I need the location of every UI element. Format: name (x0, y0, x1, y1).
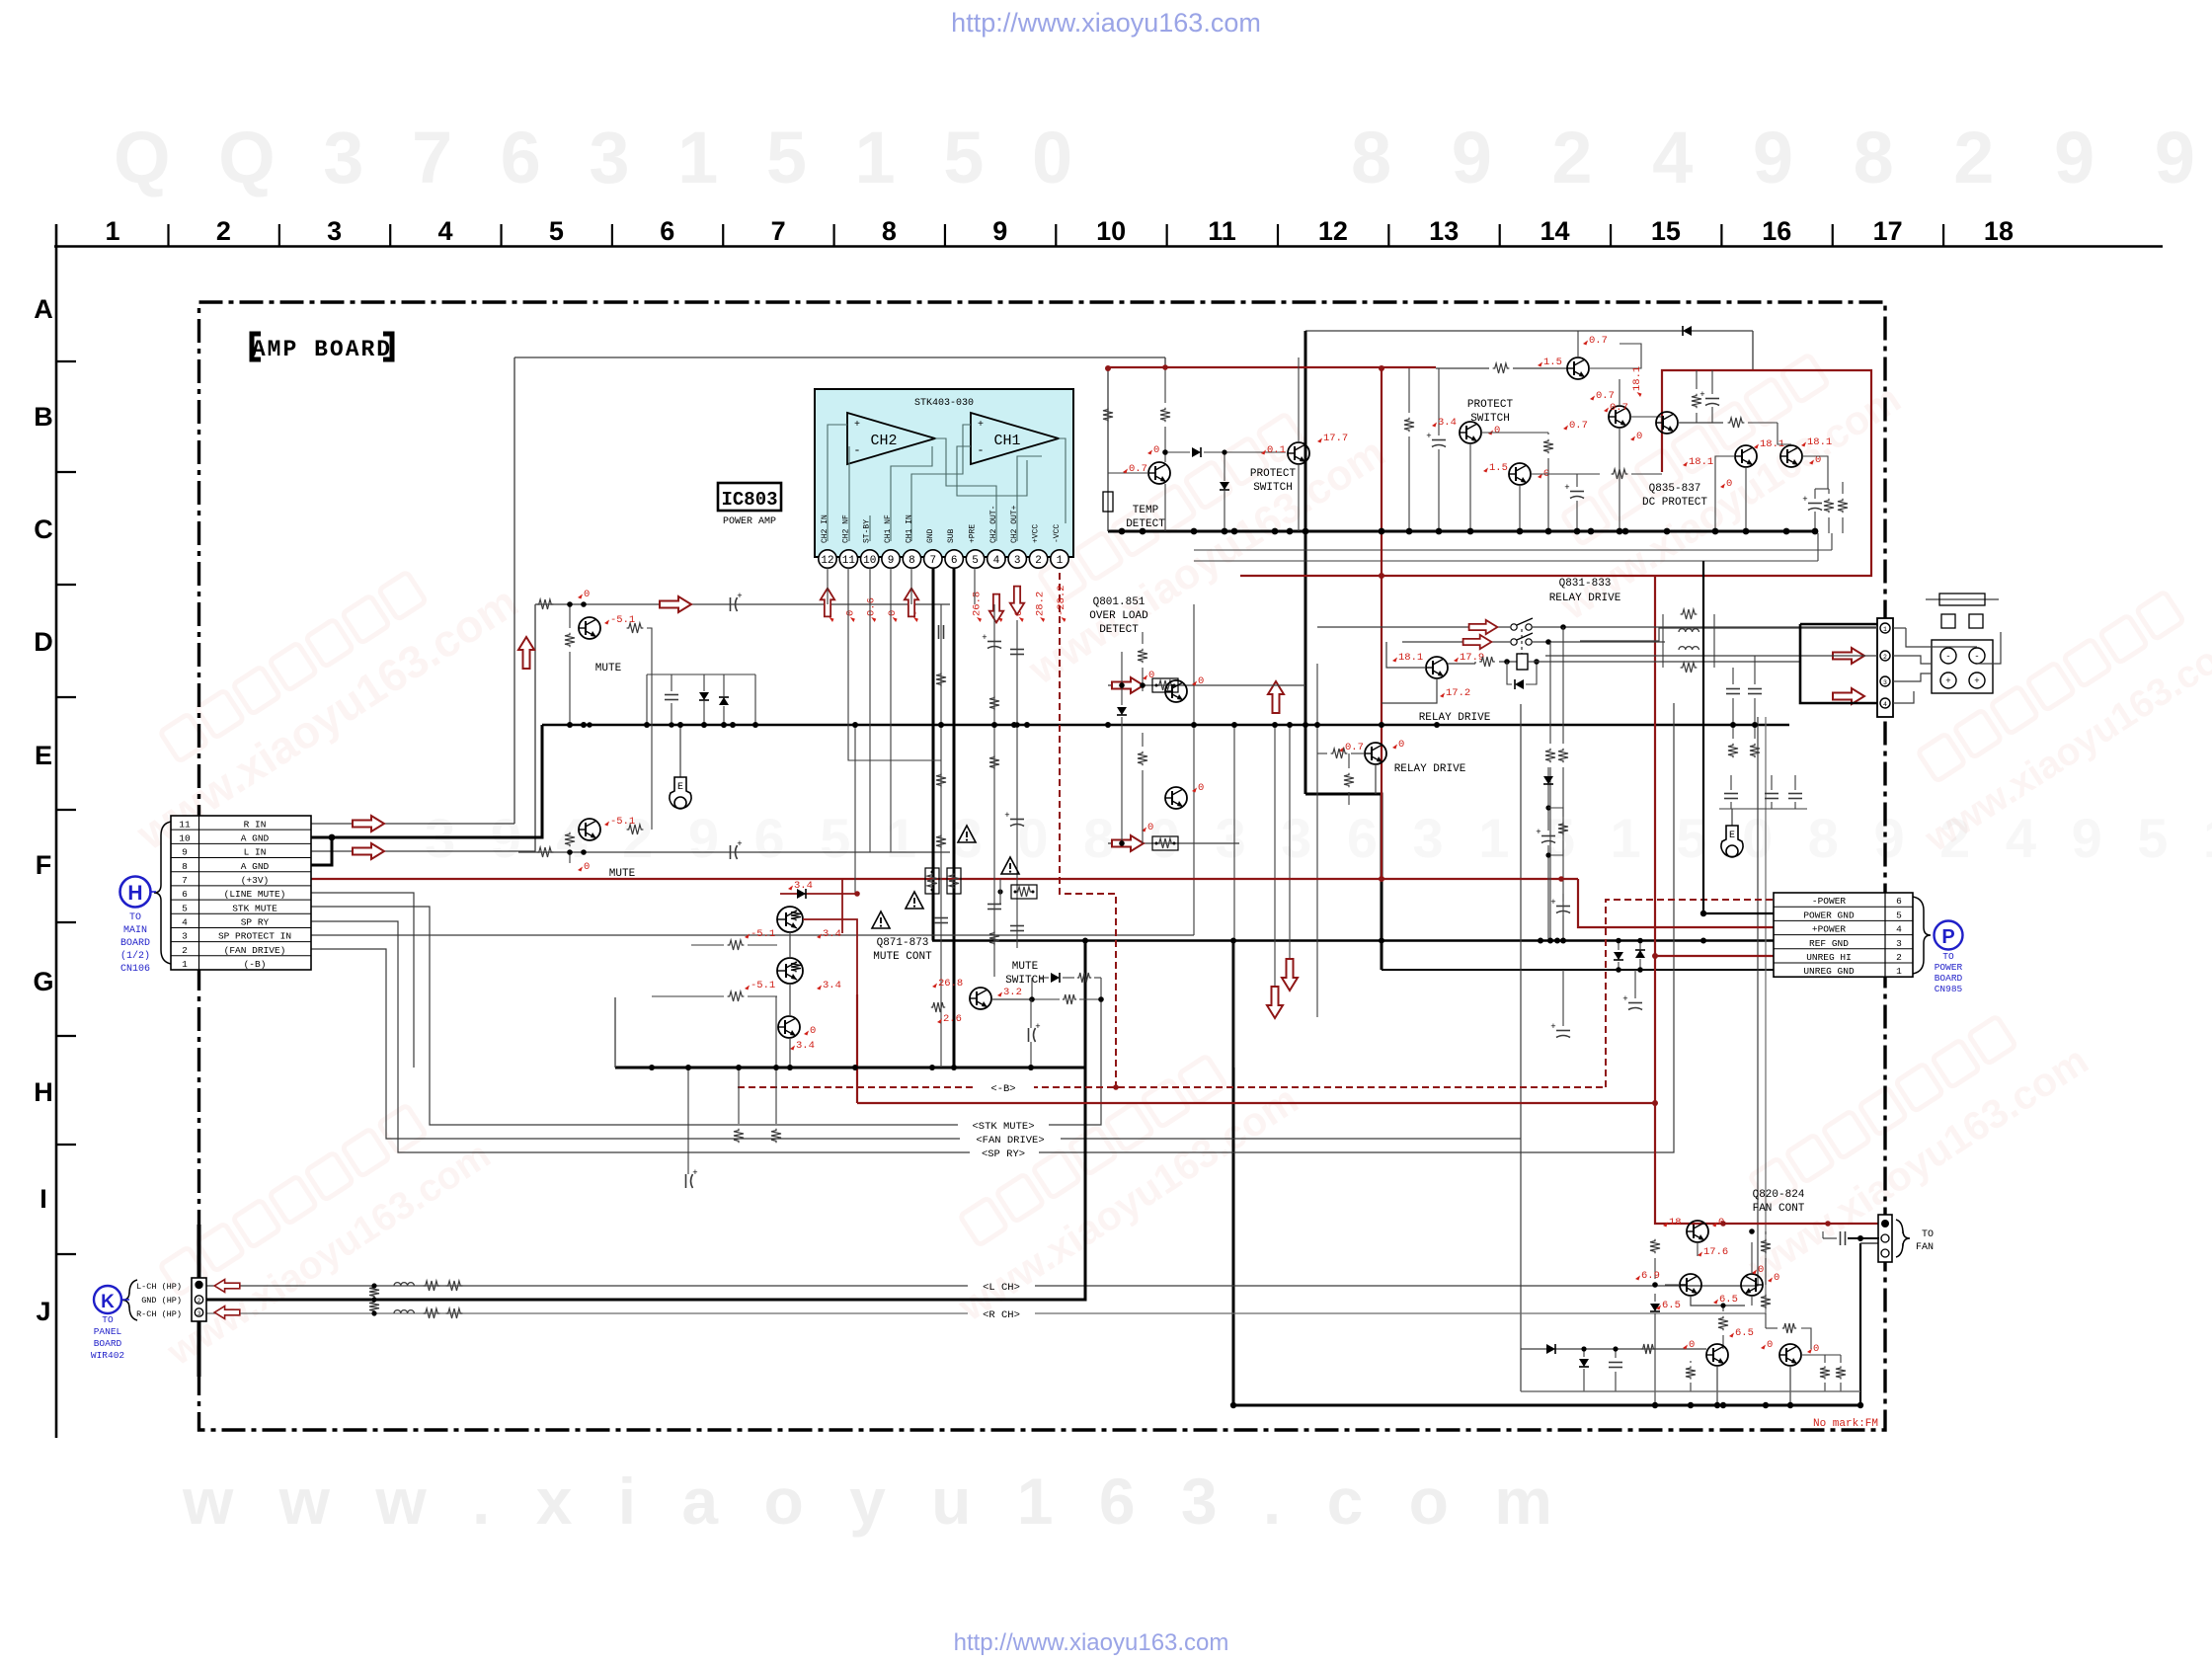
svg-text:-VCC: -VCC (1053, 524, 1062, 543)
svg-text:H: H (127, 882, 142, 905)
TO FAN connector (1878, 1215, 1892, 1262)
op-amp CH2 (847, 413, 935, 464)
svg-text:<L CH>: <L CH> (983, 1282, 1020, 1294)
svg-text:2: 2 (197, 1298, 201, 1305)
svg-text:6: 6 (951, 555, 958, 567)
transistor protect switch 2 (1460, 422, 1481, 443)
pin 8 CH1 IN (903, 550, 920, 568)
svg-text:2: 2 (1896, 952, 1902, 963)
svg-text:3.4: 3.4 (796, 1040, 815, 1052)
svg-text:-5.1: -5.1 (750, 928, 775, 940)
svg-text:+: + (1699, 390, 1704, 400)
svg-text:No mark:FM: No mark:FM (1813, 1418, 1878, 1430)
pin 7 GND (924, 550, 942, 568)
svg-text:w w w . x i a o y u 1 6 3 . c: w w w . x i a o y u 1 6 3 . c o m (182, 1465, 1566, 1538)
svg-text:STK MUTE: STK MUTE (232, 903, 277, 913)
junction dots lower bus (649, 1065, 655, 1070)
wire main horizontal bus row E (542, 724, 1789, 726)
svg-text:J: J (36, 1297, 50, 1326)
resistor relay drive 2 base (1331, 749, 1348, 758)
svg-text:14: 14 (1540, 216, 1570, 246)
svg-text:-POWER: -POWER (1812, 896, 1847, 907)
node K circle (94, 1286, 121, 1313)
wire LINE MUTE run (311, 893, 414, 1068)
resistor DC a (1824, 499, 1834, 513)
wire out row1 (1580, 628, 1877, 641)
resistor centre column (1404, 418, 1414, 432)
wire temp detect left leg (1107, 367, 1109, 531)
svg-text:K: K (101, 1292, 115, 1312)
relay coil (1517, 654, 1528, 670)
svg-text:6.5: 6.5 (1735, 1327, 1754, 1339)
svg-text:<STK MUTE>: <STK MUTE> (972, 1121, 1034, 1133)
diode mute cont (797, 889, 806, 899)
svg-text:3: 3 (1896, 938, 1902, 949)
arrow up pin 12 (821, 589, 834, 617)
transistor Q835 (1656, 412, 1678, 434)
transistor protect switch 1 (1288, 442, 1309, 464)
svg-text:E: E (35, 741, 52, 770)
svg-text:9: 9 (182, 847, 188, 858)
diode top rail (1683, 326, 1692, 336)
svg-text:1.5: 1.5 (1543, 356, 1562, 368)
resistor fan a (1650, 1239, 1660, 1253)
svg-text:Q801.851: Q801.851 (1093, 596, 1145, 608)
resistor mute switch base (931, 1002, 945, 1012)
svg-text:IC803: IC803 (721, 489, 777, 511)
svg-text:1.5: 1.5 (1489, 462, 1508, 474)
svg-text:MAIN: MAIN (123, 925, 147, 936)
svg-text:+: + (1802, 495, 1807, 505)
svg-text:+: + (1004, 811, 1009, 821)
svg-text:18: 18 (1984, 216, 2014, 246)
solid border segment above K (197, 1225, 201, 1280)
svg-text:5: 5 (1896, 910, 1902, 920)
svg-text:5: 5 (182, 903, 188, 913)
transistor top 1 (1567, 357, 1589, 379)
junction dots heavy bus 952 (1082, 938, 1088, 944)
svg-text:16: 16 (1762, 216, 1791, 246)
svg-text:0: 0 (1726, 478, 1732, 490)
svg-text:+VCC: +VCC (1032, 524, 1041, 543)
svg-text:CN985: CN985 (1935, 984, 1963, 994)
svg-text:-: - (1974, 652, 1979, 662)
wire L IN from CN106 pin 9 (311, 604, 535, 851)
transistor protect switch 3 (1509, 463, 1531, 485)
svg-text:11: 11 (179, 819, 191, 830)
component column x=1030 (1016, 620, 1018, 948)
op-amp CH1 (971, 413, 1059, 464)
wire mute cont verticals (789, 932, 791, 958)
wire drop to DC-protect top (1752, 331, 1754, 370)
AMP BOARD title (252, 334, 261, 359)
svg-text:6.5: 6.5 (1662, 1300, 1681, 1311)
svg-text:BOARD: BOARD (120, 938, 150, 949)
svg-text:CH1 IN: CH1 IN (905, 515, 913, 543)
wire relay second row (1402, 641, 1510, 643)
svg-text:L-CH (HP): L-CH (HP) (136, 1282, 182, 1292)
wire lower heavy bus G row (615, 1067, 1085, 1069)
resistor Q835 (1692, 394, 1701, 408)
wire relay top row (1317, 626, 1510, 628)
arrow overload 1 (1112, 677, 1144, 693)
bead L line (394, 1283, 414, 1286)
svg-text:28.2: 28.2 (1035, 592, 1047, 616)
svg-text:+: + (1550, 898, 1555, 908)
svg-text:0: 0 (1494, 425, 1500, 436)
pin 3 CH2 OUT+ (1008, 550, 1026, 568)
svg-text:C: C (34, 515, 53, 544)
svg-text:CN106: CN106 (120, 964, 150, 975)
ground lug E left (679, 725, 681, 777)
pin 4 CH2 OUT- (987, 550, 1005, 568)
svg-text:POWER: POWER (1935, 962, 1963, 973)
svg-text:GND: GND (926, 528, 935, 543)
diode protect (1192, 447, 1201, 457)
label SP RY (970, 1146, 1039, 1158)
resistor fan base (1641, 1344, 1655, 1354)
wire FAN DRIVE run (311, 949, 1521, 1139)
svg-text:0: 0 (1774, 1272, 1779, 1284)
warning triangles (958, 826, 976, 842)
svg-text:DETECT: DETECT (1126, 518, 1165, 530)
left ruler vertical line (55, 224, 58, 1438)
connector WIR402 box (192, 1278, 206, 1321)
resistor overload a (1138, 649, 1147, 663)
svg-text:CH2 NF: CH2 NF (841, 515, 850, 543)
vertical riser x=1250 (1233, 725, 1235, 1068)
svg-text:D: D (34, 627, 53, 657)
pin 10 ST-BY (861, 550, 879, 568)
arrow down centre 1 (1282, 959, 1298, 990)
svg-text:MUTE CONT: MUTE CONT (873, 951, 932, 963)
svg-text:13: 13 (1429, 216, 1459, 246)
svg-text:+POWER: +POWER (1812, 924, 1847, 935)
transistor fan Q823 (1706, 1344, 1728, 1366)
svg-text:STK403-030: STK403-030 (914, 398, 974, 409)
red lower rail (857, 1102, 1655, 1104)
svg-text:0.7: 0.7 (1596, 390, 1615, 402)
svg-text:9: 9 (888, 555, 895, 567)
svg-text:2: 2 (1035, 555, 1042, 567)
svg-text:+PRE: +PRE (969, 524, 978, 543)
svg-text:+: + (982, 633, 987, 643)
speaker terminal block (1932, 640, 1993, 693)
resistor mute upper (565, 633, 575, 647)
label FAN DRIVE (960, 1132, 1061, 1145)
wire mid feedback pair (1194, 549, 1832, 551)
arrow into L-CH (214, 1280, 240, 1293)
cap right column (1570, 491, 1584, 493)
svg-text:G: G (33, 967, 53, 996)
IC U803 STK403-030 block (815, 389, 1073, 557)
red DC protect loop (1240, 370, 1871, 576)
svg-text:3: 3 (197, 1310, 201, 1317)
svg-text:+: + (1945, 676, 1950, 686)
svg-text:TO: TO (129, 912, 141, 923)
red -B dashed rail (738, 1086, 1606, 1088)
svg-text:8 9 2 4 9 8 2 9 9: 8 9 2 4 9 8 2 9 9 (1351, 117, 2212, 198)
svg-text:CH1: CH1 (993, 433, 1020, 449)
svg-text:(FAN DRIVE): (FAN DRIVE) (224, 945, 286, 956)
svg-text:R-CH (HP): R-CH (HP) (136, 1309, 182, 1319)
svg-text:10: 10 (1096, 216, 1126, 246)
svg-text:(LINE MUTE): (LINE MUTE) (224, 889, 286, 900)
svg-text:0: 0 (1767, 1339, 1773, 1351)
svg-text:<FAN DRIVE>: <FAN DRIVE> (976, 1135, 1044, 1147)
wire R CH run (205, 1312, 968, 1314)
svg-text:18.1: 18.1 (1398, 652, 1423, 664)
fusible resistors vertical (925, 868, 939, 894)
svg-text:FAN CONT: FAN CONT (1753, 1203, 1805, 1215)
svg-text:WIR402: WIR402 (91, 1350, 125, 1361)
cap DC protect (1808, 503, 1822, 505)
red vertical relay feed (1381, 368, 1382, 879)
svg-text:0: 0 (1198, 675, 1204, 687)
wire TO FAN pin3 drop (1859, 1243, 1861, 1405)
svg-text:+: + (1536, 828, 1540, 837)
diode fan row (1546, 1344, 1555, 1354)
svg-text:18.1: 18.1 (1689, 456, 1713, 468)
svg-text:(-B): (-B) (244, 959, 267, 970)
svg-text:RELAY DRIVE: RELAY DRIVE (1549, 593, 1621, 604)
svg-text:3: 3 (182, 931, 188, 942)
pin 6 SUB (945, 550, 963, 568)
svg-text:I: I (39, 1184, 47, 1214)
svg-text:6: 6 (660, 216, 674, 246)
svg-text:0: 0 (887, 610, 899, 616)
red unreg hi feed (1654, 576, 1656, 956)
arrow mute up (518, 637, 534, 669)
solid border segment below K (197, 1319, 201, 1377)
resistor Q835 base (1728, 418, 1745, 428)
red rail top protect (1108, 366, 1436, 368)
svg-text:3.2: 3.2 (1003, 987, 1022, 998)
svg-text:-: - (977, 443, 984, 457)
svg-text:(1/2): (1/2) (120, 950, 150, 962)
svg-text:POWER GND: POWER GND (1803, 910, 1855, 920)
svg-text:2: 2 (182, 945, 188, 956)
pin 3 R-CH (195, 1308, 202, 1316)
component column x=953 (940, 604, 942, 1068)
diode + resistor loop (991, 998, 1032, 1000)
svg-text:26.8: 26.8 (938, 978, 963, 990)
svg-text:11: 11 (842, 555, 856, 567)
coil block (1662, 614, 1664, 668)
transistor top 2 (1609, 406, 1630, 428)
svg-text:+: + (978, 420, 984, 431)
svg-text:SP PROTECT IN: SP PROTECT IN (218, 931, 291, 942)
H brace (154, 822, 171, 964)
svg-text:Q820-824: Q820-824 (1753, 1189, 1805, 1201)
svg-text:<-B>: <-B> (990, 1083, 1015, 1095)
svg-text:CH2 OUT+: CH2 OUT+ (1010, 505, 1019, 543)
pin 12 CH2 IN (819, 550, 836, 568)
svg-text:SUB: SUB (947, 528, 956, 543)
transistor overload A (1165, 680, 1187, 702)
arrow into R-CH (214, 1307, 240, 1319)
svg-text:0: 0 (1689, 1339, 1695, 1351)
svg-text:http://www.xiaoyu163.com: http://www.xiaoyu163.com (954, 1629, 1229, 1656)
pin 1 -VCC (1051, 550, 1068, 568)
svg-text:7: 7 (182, 875, 188, 886)
svg-text:SP RY: SP RY (241, 917, 270, 928)
svg-text:11: 11 (1208, 216, 1236, 246)
arrow to output pin4 (1833, 688, 1864, 704)
svg-text:PANEL: PANEL (94, 1326, 122, 1337)
wire relay switch risers (1549, 642, 1551, 744)
svg-text:18.1: 18.1 (1807, 436, 1832, 448)
resistor mute lower right (627, 825, 644, 834)
resistor mute cont a (728, 940, 745, 950)
svg-text:POWER AMP: POWER AMP (723, 516, 776, 527)
svg-text:1: 1 (1057, 555, 1064, 567)
svg-text:FAN: FAN (1916, 1242, 1934, 1253)
resistor fan low a (1686, 1366, 1696, 1379)
pin 5 +PRE (966, 550, 984, 568)
resistor fan low b (1820, 1366, 1830, 1379)
wire SUB pin6 drop (953, 568, 956, 1068)
svg-text:+: + (1426, 432, 1431, 441)
svg-text:http://www.xiaoyu163.com: http://www.xiaoyu163.com (951, 8, 1261, 38)
caps to bus (1726, 688, 1740, 690)
svg-text:+: + (854, 420, 860, 431)
svg-text:F: F (36, 850, 52, 880)
resistor mute upper right (627, 623, 644, 633)
svg-text:3.4: 3.4 (823, 980, 841, 991)
resistor fan low c (1836, 1366, 1846, 1379)
junction dots row E bus (567, 722, 573, 728)
svg-text:+: + (737, 592, 742, 601)
svg-text:0.1: 0.1 (1267, 444, 1286, 456)
svg-text:3: 3 (1014, 555, 1021, 567)
svg-text:0: 0 (844, 610, 856, 616)
svg-text:18.1: 18.1 (1631, 366, 1643, 391)
svg-text:Q835-837: Q835-837 (1649, 483, 1701, 495)
node H circle (120, 877, 151, 908)
svg-text:P: P (1941, 926, 1954, 948)
junction dots red rails (1379, 876, 1384, 882)
wires into output connector (1893, 627, 1906, 629)
transistor fan Q820 (1687, 1221, 1708, 1242)
transistor fan Q821 (1680, 1274, 1701, 1296)
connector CN106 table (171, 816, 311, 970)
fan bottom rail (1521, 1390, 1860, 1392)
transistor pair Q871 (777, 907, 803, 932)
wire GND HP heavy run (205, 941, 1085, 1301)
arrow mute rail (660, 596, 691, 612)
pin 2 +VCC (1029, 550, 1047, 568)
junction dots fan bus (1230, 1402, 1236, 1408)
svg-text:-28.2: -28.2 (1056, 585, 1067, 616)
fusible resistor 2 (1152, 836, 1178, 850)
vertical riser x=1291 (1274, 725, 1276, 989)
red +B rail from (+3V) (311, 878, 1578, 880)
svg-text:-5.1: -5.1 (750, 980, 775, 991)
wire overload row 2 (1108, 842, 1239, 844)
svg-text:0.6: 0.6 (866, 597, 878, 616)
label STK MUTE (958, 1118, 1049, 1131)
svg-text:L IN: L IN (244, 847, 267, 858)
wire UNREG GND feed (1382, 969, 1774, 971)
resistor on L-CH line (369, 1286, 379, 1298)
svg-text:CH2: CH2 (870, 433, 897, 449)
svg-text:RELAY DRIVE: RELAY DRIVE (1419, 712, 1491, 724)
arrow down pin 4 (989, 594, 1003, 623)
svg-text:<SP RY>: <SP RY> (982, 1148, 1025, 1160)
svg-text:3.4: 3.4 (1438, 417, 1457, 429)
wire mute lower rail (518, 851, 950, 853)
svg-text:<R CH>: <R CH> (983, 1309, 1020, 1321)
transistor mute switch (970, 988, 991, 1009)
svg-text:GND (HP): GND (HP) (141, 1296, 182, 1306)
resistor fan top right (1782, 1323, 1796, 1333)
wire STK MUTE run (311, 907, 1101, 1125)
svg-text:MUTE: MUTE (609, 868, 636, 880)
svg-text:CH2 OUT-: CH2 OUT- (989, 506, 998, 543)
pin 9 CH1 NF (882, 550, 900, 568)
wire A GND bus from pin 10 (311, 725, 542, 837)
resistor DC b (1838, 499, 1848, 513)
wire out row2 (1545, 655, 1877, 657)
transistor pair Q872 (777, 958, 803, 984)
resistor below relay2 (1344, 773, 1354, 787)
svg-text:TO: TO (102, 1314, 114, 1325)
svg-text:A GND: A GND (241, 832, 270, 843)
svg-text:4: 4 (438, 216, 453, 246)
wire SP PROTECT IN run (311, 934, 1194, 936)
IC internal wiring (828, 425, 847, 541)
svg-text:E: E (677, 782, 683, 793)
pin 1 L-CH (195, 1281, 202, 1289)
red diode branch (841, 879, 843, 933)
svg-text:6: 6 (182, 889, 188, 900)
switch contacts 2 (1511, 639, 1517, 645)
svg-text:17: 17 (1873, 216, 1903, 246)
transistor relay drive 1 (1426, 657, 1448, 678)
dots fan (1652, 1402, 1658, 1408)
bead R line (394, 1310, 414, 1313)
svg-text:BOARD: BOARD (1935, 973, 1963, 984)
transistor mute upper (579, 617, 600, 639)
svg-text:TO: TO (1942, 951, 1954, 962)
svg-text:ST-BY: ST-BY (863, 519, 872, 543)
fuse temp (1103, 492, 1113, 512)
ground lug E right (1719, 808, 1807, 810)
cap to fan pin2 (1840, 1231, 1842, 1245)
svg-text:9: 9 (992, 216, 1007, 246)
svg-text:10: 10 (863, 555, 876, 567)
wire mute upper rail (535, 603, 950, 605)
node P circle (1935, 921, 1963, 950)
cap mute lower rail (730, 845, 732, 859)
wire R IN from CN106 pin 11 (311, 823, 514, 825)
resistor temp b (1160, 408, 1170, 422)
label -B (973, 1080, 1034, 1093)
protect sense branch (1547, 767, 1549, 831)
wire overload row 1 (1108, 684, 1305, 686)
arrow relay 2 (1463, 635, 1492, 649)
svg-text:SWITCH: SWITCH (1253, 482, 1293, 494)
svg-text:7: 7 (929, 555, 936, 567)
svg-text:BOARD: BOARD (94, 1338, 122, 1349)
svg-text:1: 1 (1883, 626, 1887, 633)
pin drop wires (827, 568, 829, 604)
transistor fan Q824 (1779, 1344, 1801, 1366)
connector CN985 table (1774, 893, 1913, 977)
diagonal pink watermarks (98, 530, 527, 860)
red -VCC dashed drop (1060, 573, 1116, 1087)
